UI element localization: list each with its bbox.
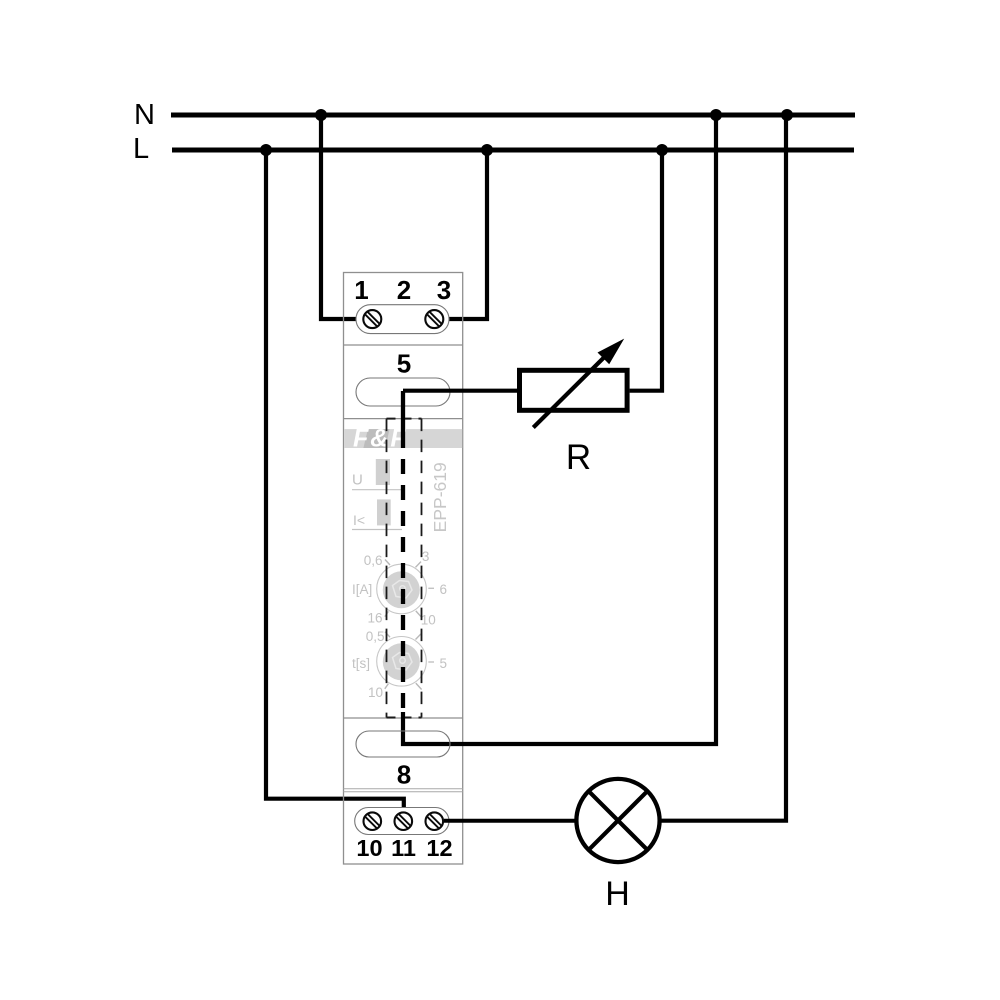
svg-text:5: 5: [397, 349, 411, 379]
terminal slot 1-3: [356, 305, 449, 334]
junction L-resistor: [656, 144, 668, 156]
relay U1 EPP-619 module body: [344, 273, 463, 865]
svg-text:6: 6: [440, 582, 448, 597]
svg-text:8: 8: [397, 760, 411, 790]
resistor R adjustment arrow shaft: [533, 351, 611, 428]
wire terminal 5 to resistor: [403, 389, 517, 393]
svg-text:12: 12: [426, 835, 452, 861]
dial t[s] scale value 5: [428, 656, 447, 671]
dial I[A] scale value 6: [428, 582, 447, 597]
svg-text:F&F: F&F: [353, 425, 408, 453]
svg-text:5: 5: [440, 656, 448, 671]
svg-text:0,5: 0,5: [366, 629, 385, 644]
wire L to terminal 3: [444, 150, 487, 319]
wire internal drop (dashed through module): [401, 433, 405, 713]
dial time t[s]: [377, 632, 427, 690]
svg-text:11: 11: [391, 835, 416, 861]
terminal screw 10: [364, 812, 382, 830]
wire N to terminal 1: [321, 115, 363, 319]
svg-text:H: H: [605, 875, 630, 913]
svg-text:I[A]: I[A]: [352, 582, 372, 597]
terminal slot 10-12: [355, 808, 449, 835]
dashed internal channel: [387, 419, 422, 718]
wire resistor to L bus: [630, 150, 662, 391]
front panel label I-less-than: [352, 512, 402, 530]
front panel label U: [352, 472, 403, 490]
junction N-lamp: [781, 109, 793, 121]
terminal screw 12: [426, 812, 444, 830]
junction L-terminal3: [481, 144, 493, 156]
svg-text:2: 2: [397, 275, 411, 305]
wire L bus: [172, 148, 854, 153]
junction N-terminal1: [315, 109, 327, 121]
svg-text:1: 1: [354, 275, 368, 305]
front panel logo band F&F: [344, 425, 462, 453]
junction L-terminal11: [260, 144, 272, 156]
svg-text:I<: I<: [353, 512, 365, 528]
resistor R adjustment arrowhead: [598, 339, 625, 365]
resistor R body: [520, 370, 628, 410]
terminal slot 8: [356, 731, 450, 757]
svg-text:R: R: [566, 438, 591, 477]
wire N bus: [171, 113, 855, 118]
terminal screw 11: [395, 812, 413, 830]
wire terminal 5 internal drop (solid): [401, 391, 405, 433]
svg-text:t[s]: t[s]: [352, 656, 370, 671]
dial current I[A]: [377, 560, 427, 618]
svg-text:EPP-619: EPP-619: [430, 462, 450, 532]
wire terminal 12 to lamp: [444, 819, 575, 823]
svg-text:10: 10: [421, 613, 436, 628]
front panel LED window I: [377, 499, 391, 525]
svg-text:N: N: [134, 99, 155, 131]
front panel LED window U: [376, 459, 390, 485]
terminal screw 1: [363, 310, 381, 328]
svg-text:0,6: 0,6: [364, 553, 383, 568]
terminal slot 5: [356, 378, 450, 406]
lamp H symbol: [576, 779, 659, 862]
svg-text:3: 3: [422, 549, 430, 564]
wire L to terminal 11: [266, 150, 404, 812]
svg-text:U: U: [352, 472, 363, 489]
wire terminal 8 to N bus: [403, 115, 716, 744]
junction N-terminal8: [710, 109, 722, 121]
svg-text:16: 16: [367, 611, 382, 626]
svg-text:L: L: [133, 133, 149, 165]
terminal screw 3: [425, 310, 443, 328]
wire lamp to N bus: [660, 115, 786, 821]
svg-text:10: 10: [368, 685, 383, 700]
svg-text:3: 3: [437, 275, 451, 305]
svg-text:10: 10: [356, 835, 382, 861]
